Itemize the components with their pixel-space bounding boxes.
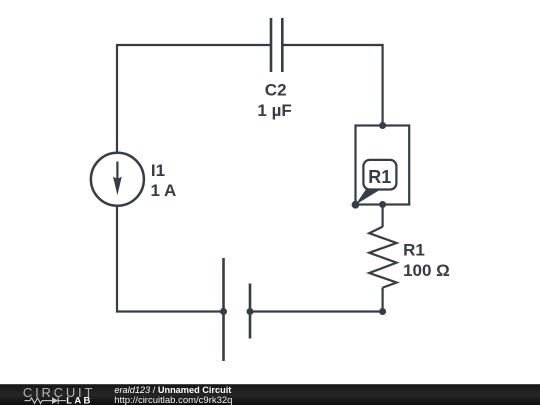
svg-text:R1: R1 (403, 241, 425, 260)
svg-text:I1: I1 (151, 161, 165, 180)
svg-text:C2: C2 (265, 81, 287, 100)
footer bar (0, 384, 540, 405)
svg-text:100 Ω: 100 Ω (403, 261, 450, 280)
wire box to resistor (382, 205, 384, 228)
wire top-right from capacitor to right branch (283, 45, 383, 126)
node dot battery right (247, 308, 254, 315)
capacitor C2 plates (271, 18, 282, 72)
resistor R1 zigzag (369, 227, 396, 288)
logo wire with resistor and diode (25, 397, 67, 403)
svg-text:erald123 / Unnamed Circuit: erald123 / Unnamed Circuit (114, 385, 231, 395)
svg-text:1 A: 1 A (151, 181, 177, 200)
svg-text:1 µF: 1 µF (257, 101, 291, 120)
svg-text:http://circuitlab.com/c9rk32q: http://circuitlab.com/c9rk32q (114, 395, 232, 405)
battery long plate (222, 258, 225, 361)
battery short plate (249, 284, 252, 339)
node dot resistor bottom (379, 308, 386, 315)
wire bottom-right from battery to resistor branch (250, 310, 383, 312)
svg-text:LAB: LAB (66, 396, 92, 405)
component box with tag R1 (356, 126, 410, 205)
wire top-left from left branch to capacitor (117, 45, 270, 153)
tag callout tail (356, 189, 381, 205)
node dot box bottom-left (352, 201, 360, 209)
wire resistor to bottom (382, 288, 384, 312)
wire left-bottom from current source to battery (117, 205, 224, 312)
svg-text:R1: R1 (368, 167, 391, 187)
node dot box top (379, 122, 386, 129)
node dot box bottom (379, 201, 386, 208)
node dot battery left (220, 308, 227, 315)
tag rounded box R1 (363, 160, 396, 190)
current source I1 arrow (116, 162, 118, 182)
current source I1 circle (91, 153, 144, 206)
